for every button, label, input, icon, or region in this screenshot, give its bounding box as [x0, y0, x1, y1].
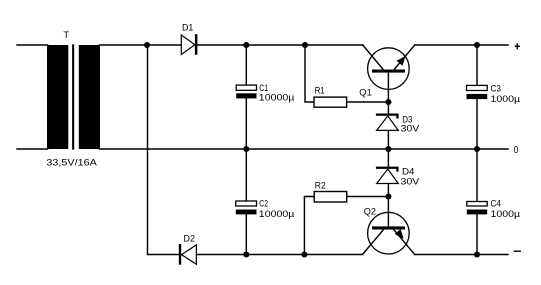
diode D2 triangle: [182, 245, 197, 264]
node bottom rail / C4: [474, 251, 480, 257]
svg-text:C2: C2: [259, 199, 268, 209]
wire C2 to bottom rail: [245, 214, 247, 254]
diode D2 cathode bar: [179, 244, 181, 265]
svg-text:Q2: Q2: [364, 206, 376, 216]
wire top rail to C1: [245, 45, 247, 85]
transistor Q2 base bar: [372, 226, 405, 229]
svg-text:C3: C3: [491, 83, 501, 93]
resistor R2: [314, 192, 347, 203]
svg-text:D4: D4: [402, 166, 415, 176]
svg-text:10000µ: 10000µ: [259, 93, 295, 103]
transformer T winding left: [47, 45, 68, 149]
transistor Q2 circle: [368, 212, 410, 254]
wire Q1 collector lead: [363, 45, 384, 70]
wire C3 to mid rail to C4: [476, 99, 478, 201]
wire Q2 emitter lead: [394, 230, 415, 255]
node Q2 base / R2 / D4: [385, 193, 391, 199]
svg-text:30V: 30V: [401, 177, 420, 187]
svg-text:R1: R1: [315, 86, 325, 96]
transistor Q2 emitter arrow: [395, 229, 404, 239]
node top rail / R1 branch: [302, 42, 308, 48]
svg-text:1000µ: 1000µ: [491, 94, 521, 104]
wire Q1 base node to D3: [387, 102, 389, 114]
resistor R1: [314, 97, 347, 107]
zener diode D4 cathode bar: [376, 167, 399, 172]
zener diode D3 cathode bar: [376, 114, 399, 119]
wire bottom rail up to R2 left: [304, 197, 314, 255]
wire Q1 emitter lead: [394, 45, 415, 70]
wire D2 anode to Q2 collector corner: [196, 254, 362, 256]
svg-text:33,5V/16A: 33,5V/16A: [46, 157, 97, 167]
wire D3 anode to mid rail: [387, 130, 389, 149]
diode D1 triangle: [181, 35, 195, 55]
wire mid rail to D4: [387, 149, 389, 167]
node mid rail / C1 / C2: [243, 146, 249, 152]
wire secondary top to D1: [100, 44, 182, 46]
wire C1 to mid rail to C2: [245, 98, 247, 201]
node Q1 base / R1 / D3: [385, 99, 391, 105]
svg-text:D2: D2: [184, 233, 196, 243]
terminal plus: [515, 43, 520, 49]
wire primary top: [17, 44, 48, 46]
transistor Q1 emitter arrow: [397, 56, 406, 66]
svg-text:C1: C1: [259, 83, 268, 93]
wire R2 right to Q2 base node: [347, 196, 389, 198]
capacitor C1 top plate: [236, 85, 256, 90]
wire top rail down to R1 left: [305, 45, 314, 102]
node bottom rail / D2 / C2: [243, 251, 249, 257]
transformer T core: [72, 44, 74, 149]
node bottom rail / R2 branch: [301, 251, 307, 257]
diode D1 cathode bar: [195, 34, 198, 55]
capacitor C3 top plate: [467, 85, 488, 90]
wire vertical drop from node at x=147.5 to bottom rail: [148, 45, 179, 255]
wire D4 anode to Q2 base node: [387, 184, 389, 197]
svg-text:0: 0: [514, 145, 519, 156]
node top rail / C3: [474, 42, 480, 48]
wire primary bottom: [17, 148, 48, 150]
svg-text:T: T: [63, 30, 69, 40]
terminal minus: [514, 250, 521, 252]
node mid rail / D3 / D4: [385, 146, 391, 152]
zener diode D4 triangle: [377, 169, 399, 184]
node mid rail / C3 / C4: [474, 146, 480, 152]
svg-text:10000µ: 10000µ: [259, 209, 295, 219]
wire mid rail secondary to 0 terminal: [100, 148, 509, 150]
capacitor C2 bottom plate: [236, 210, 257, 215]
wire D1 cathode to Q1 collector corner: [197, 44, 362, 46]
capacitor C2 top plate: [236, 201, 257, 206]
capacitor C4 bottom plate: [467, 210, 487, 215]
svg-text:Q1: Q1: [359, 88, 372, 98]
zener diode D3 triangle: [377, 116, 399, 130]
node D1 cathode / C1: [243, 42, 249, 48]
wire Q2 collector lead: [363, 230, 384, 255]
capacitor C3 bottom plate: [467, 94, 488, 99]
transistor Q1 base bar: [372, 70, 405, 73]
capacitor C1 bottom plate: [236, 93, 256, 98]
capacitor C4 top plate: [467, 202, 487, 207]
svg-text:R2: R2: [315, 180, 326, 190]
svg-text:30V: 30V: [401, 124, 420, 134]
svg-text:C4: C4: [491, 199, 501, 209]
svg-text:1000µ: 1000µ: [491, 209, 521, 219]
wire C4 to bottom rail: [476, 214, 478, 254]
transistor Q1 circle: [368, 48, 410, 90]
wire Q2 base: [387, 197, 389, 227]
wire top rail to C3: [476, 45, 478, 85]
wire Q1 emitter to plus terminal: [415, 44, 508, 46]
svg-text:D1: D1: [182, 22, 193, 32]
wire Q2 emitter to minus terminal: [415, 254, 508, 256]
wire R1 right to Q1 base node: [347, 101, 389, 103]
wire Q1 base: [387, 73, 389, 102]
node top rail / D2 branch: [144, 42, 150, 48]
transformer T winding right: [79, 45, 100, 149]
